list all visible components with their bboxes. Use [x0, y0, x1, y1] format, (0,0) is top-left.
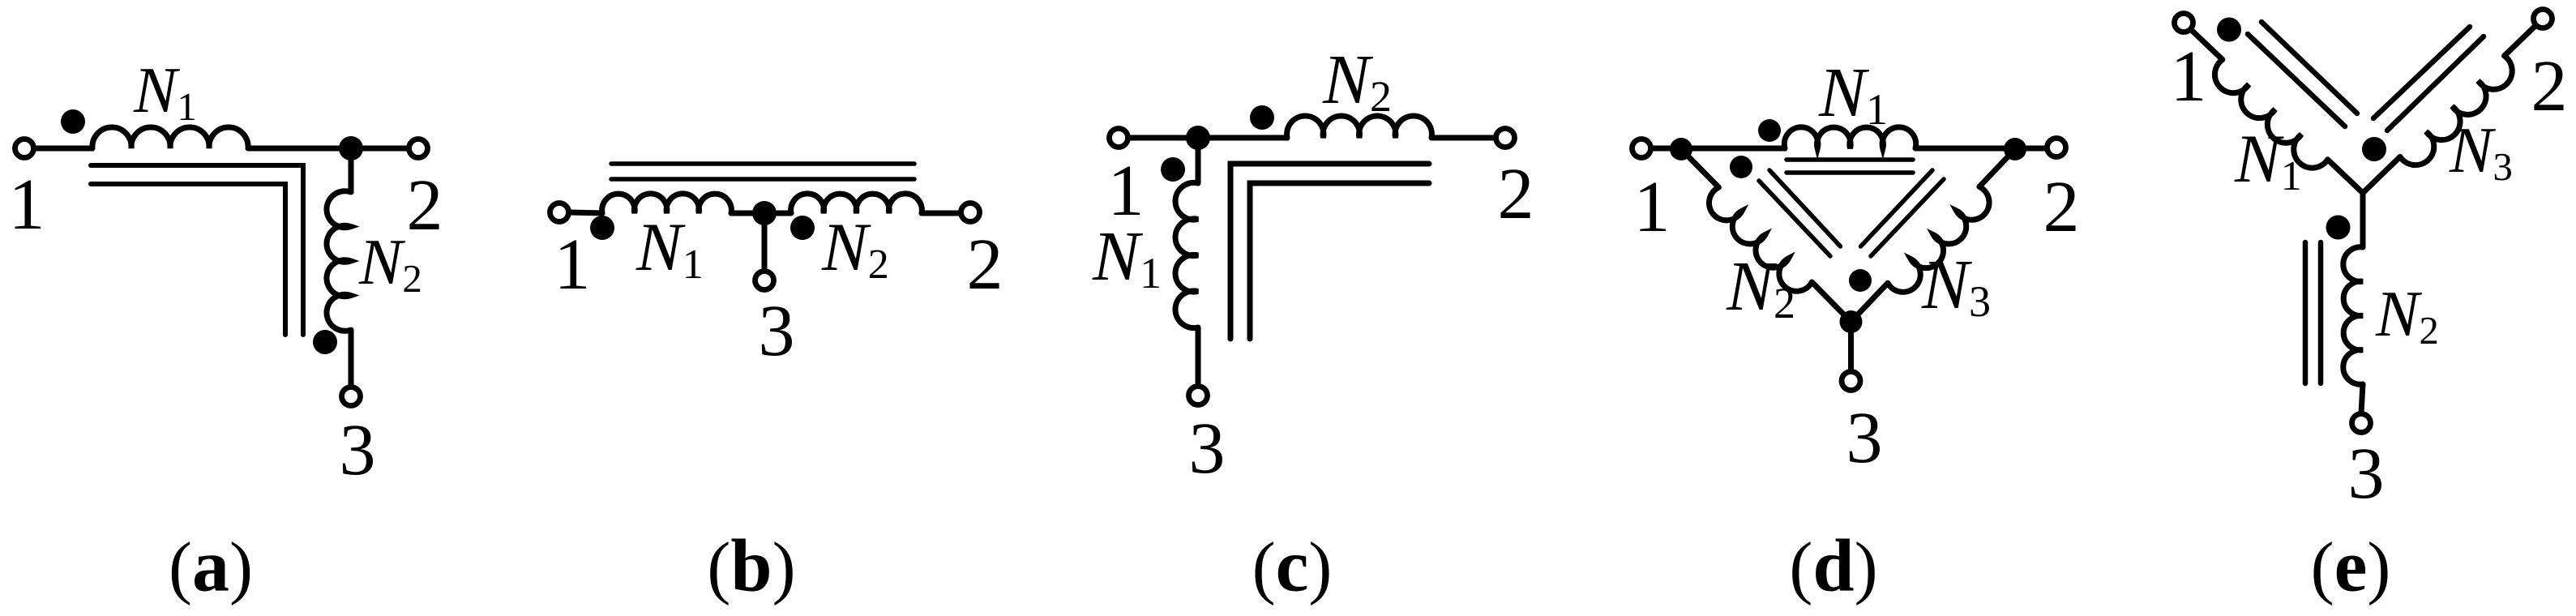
terminal 3 (a) — [342, 387, 361, 406]
terminal 2 (e) — [2534, 10, 2552, 28]
core top line B (d) — [1787, 170, 1913, 175]
svg-text:N3: N3 — [1921, 245, 1991, 326]
winding N1 (c) — [1175, 182, 1198, 327]
wire terminal2-N3 (e) — [2505, 19, 2543, 56]
wire terminal1-N1 (d) — [1652, 146, 1787, 152]
polarity dot N2 (a) — [313, 330, 337, 354]
node 3 (d) — [1840, 310, 1863, 333]
polarity dot N2 (e) — [2326, 216, 2351, 240]
terminal 1 (a) — [15, 139, 34, 158]
svg-text:N2: N2 — [1322, 40, 1392, 121]
svg-text:3: 3 — [340, 410, 376, 490]
core bottom line (b) — [611, 177, 914, 182]
wire N2-terminal2 (c) — [1431, 135, 1496, 141]
svg-text:N1: N1 — [133, 55, 197, 129]
wire terminal1-junction (c) — [1129, 135, 1289, 141]
terminal 2 (c) — [1496, 129, 1515, 148]
core left diagonal B (e) — [2248, 34, 2345, 126]
core top line (b) — [611, 161, 914, 166]
terminal 1 (e) — [2175, 14, 2193, 32]
polarity dot N2 (c) — [1250, 105, 1274, 130]
wire terminal1-N1 (b) — [570, 212, 604, 213]
svg-text:2: 2 — [1498, 154, 1534, 234]
core outer line (c) — [1230, 164, 1429, 339]
wire N1-terminal2 (d) — [1915, 146, 2047, 152]
wire junction-N1 (c) — [1196, 138, 1201, 184]
wire terminal1-N1 (a) — [36, 146, 94, 152]
polarity dot N1 (a) — [61, 109, 85, 134]
terminal 2 (b) — [961, 203, 980, 222]
core vertical line B (e) — [2318, 242, 2324, 383]
svg-text:N2: N2 — [821, 209, 889, 288]
polarity dot N3 (e) — [2362, 137, 2386, 161]
svg-text:2: 2 — [2531, 46, 2568, 126]
terminal 3 (b) — [755, 272, 774, 290]
wire N2-terminal3 (e) — [2361, 384, 2363, 413]
node 2 (d) — [2004, 138, 2026, 160]
core inner line (a) — [91, 184, 285, 335]
svg-text:1: 1 — [2171, 36, 2207, 117]
svg-text:2: 2 — [967, 225, 1003, 305]
winding N1 (e) — [2214, 60, 2327, 169]
terminal 3 (c) — [1189, 387, 1208, 405]
svg-text:1: 1 — [1634, 167, 1671, 247]
wire junction-terminal3 (b) — [762, 213, 768, 271]
wire N2-node3 (d) — [1812, 282, 1851, 322]
winding N3 (e) — [2400, 56, 2512, 165]
svg-text:2: 2 — [2043, 167, 2080, 247]
svg-text:N1: N1 — [2234, 121, 2302, 199]
terminal 3 (d) — [1842, 372, 1860, 391]
core left diagonal B (d) — [1759, 181, 1830, 256]
winding N2 (e) — [2343, 247, 2363, 384]
svg-text:N1: N1 — [1818, 53, 1888, 134]
core right diagonal A (d) — [1861, 170, 1933, 246]
terminal 2 (d) — [2048, 139, 2066, 157]
node junction (a) — [339, 136, 363, 160]
core outer line (a) — [91, 165, 303, 335]
winding N1 (d) — [1784, 127, 1915, 148]
node junction (c) — [1186, 126, 1210, 150]
svg-text:3: 3 — [1846, 398, 1883, 478]
winding N1 (b) — [602, 194, 732, 213]
winding N2 (c) — [1287, 116, 1432, 138]
core top line A (d) — [1787, 157, 1913, 162]
wire N1-terminal3 (c) — [1196, 327, 1201, 386]
terminal 3 (e) — [2352, 414, 2371, 433]
svg-text:1: 1 — [554, 225, 591, 305]
svg-text:3: 3 — [2348, 434, 2385, 514]
wire N2-terminal2 (b) — [922, 211, 961, 216]
winding N3 (d) — [1888, 186, 1989, 292]
svg-text:(b): (b) — [707, 524, 795, 607]
svg-text:3: 3 — [1189, 409, 1226, 489]
svg-text:2: 2 — [407, 165, 443, 246]
polarity dot N1 (e) — [2217, 18, 2241, 42]
wire terminal1-N1 (e) — [2184, 23, 2223, 60]
svg-text:1: 1 — [9, 165, 45, 245]
svg-text:(a): (a) — [169, 524, 253, 607]
node 1 (d) — [1670, 138, 1692, 160]
svg-text:(d): (d) — [1789, 524, 1877, 607]
node junction (b) — [752, 201, 777, 225]
wire N1-centre (e) — [2328, 160, 2363, 193]
core left diagonal A (d) — [1769, 170, 1841, 246]
core vertical line A (e) — [2303, 242, 2309, 383]
winding N2 (b) — [791, 194, 922, 213]
wire node2-N3 (d) — [1979, 149, 2015, 186]
winding N2 (d) — [1709, 187, 1812, 291]
winding N1 (a) — [92, 127, 248, 148]
polarity dot N1 (c) — [1161, 157, 1185, 182]
svg-text:N3: N3 — [2449, 115, 2513, 189]
wire N3-centre (e) — [2363, 156, 2400, 193]
polarity dot N3 (d) — [1849, 269, 1872, 292]
polarity dot N2 (d) — [1730, 156, 1752, 178]
core left diagonal A (e) — [2261, 22, 2357, 113]
wire N2-terminal3 (a) — [349, 330, 354, 387]
wire junction-N2 (a) — [349, 148, 354, 193]
core right diagonal B (d) — [1871, 179, 1944, 256]
core right diagonal B (e) — [2387, 36, 2484, 130]
core right diagonal A (e) — [2373, 27, 2470, 118]
wire centre-N2 (e) — [2360, 193, 2366, 248]
terminal 1 (b) — [550, 203, 569, 222]
terminal 1 (c) — [1110, 129, 1128, 148]
wire N1-N2 (b) — [731, 211, 791, 216]
wire N1-terminal2 (a) — [248, 146, 409, 152]
svg-text:(c): (c) — [1252, 524, 1333, 607]
svg-text:N1: N1 — [635, 209, 704, 288]
polarity dot N2 (b) — [790, 216, 815, 240]
winding N2 (a) — [327, 191, 351, 332]
polarity dot N1 (d) — [1758, 119, 1781, 142]
terminal 1 (d) — [1632, 139, 1651, 158]
wire node3-terminal3 (d) — [1848, 322, 1854, 371]
svg-text:N1: N1 — [1092, 216, 1162, 297]
svg-text:3: 3 — [759, 291, 795, 371]
wire node1-N2 (d) — [1681, 149, 1718, 187]
svg-text:N2: N2 — [2375, 279, 2439, 353]
polarity dot N1 (b) — [590, 216, 614, 240]
wire N3-node3 (d) — [1851, 283, 1888, 322]
svg-text:(e): (e) — [2311, 524, 2391, 607]
terminal 2 (a) — [409, 139, 428, 158]
core inner line (c) — [1250, 183, 1429, 339]
